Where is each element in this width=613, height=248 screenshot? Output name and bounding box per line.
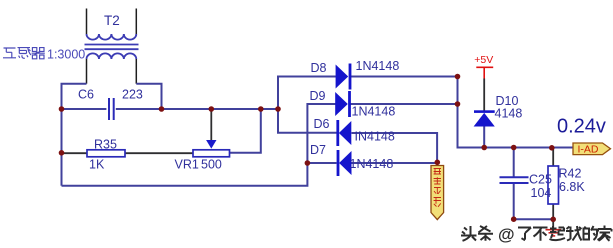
svg-text:I-AD: I-AD: [578, 144, 599, 156]
svg-text:104: 104: [531, 186, 552, 200]
svg-text:1N4148: 1N4148: [356, 59, 400, 73]
svg-text:+5V: +5V: [474, 54, 493, 66]
svg-text:6.8K: 6.8K: [559, 180, 585, 194]
svg-text:R35: R35: [94, 138, 117, 152]
svg-text:C25: C25: [529, 173, 552, 187]
svg-text:0.24v: 0.24v: [557, 116, 606, 138]
svg-text:D9: D9: [310, 89, 326, 103]
svg-text:D6: D6: [314, 117, 330, 131]
svg-text:1N4148: 1N4148: [352, 105, 396, 119]
svg-text:1:3000: 1:3000: [47, 47, 85, 61]
svg-text:500: 500: [201, 158, 222, 172]
svg-text:R42: R42: [559, 167, 582, 181]
svg-text:1N4148: 1N4148: [350, 157, 394, 171]
svg-text:D7: D7: [310, 143, 326, 157]
svg-text:@: @: [498, 225, 515, 244]
svg-text:1K: 1K: [89, 158, 105, 172]
svg-text:C6: C6: [78, 87, 94, 101]
svg-text:T2: T2: [104, 13, 120, 28]
svg-text:D8: D8: [311, 61, 327, 75]
svg-text:VR1: VR1: [175, 158, 199, 172]
svg-text:4148: 4148: [495, 107, 523, 121]
svg-text:223: 223: [122, 87, 143, 101]
svg-text:IN4148: IN4148: [355, 130, 395, 144]
